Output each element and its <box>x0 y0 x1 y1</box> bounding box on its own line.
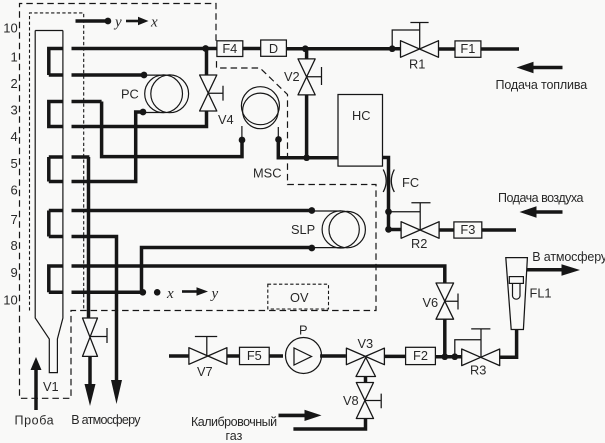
arrow fuel supply <box>533 66 563 70</box>
arrow air supply <box>535 210 563 214</box>
restrictor FC <box>383 170 394 193</box>
handle V7 <box>195 337 217 357</box>
valve V6 <box>436 283 454 319</box>
svg-text:V3: V3 <box>358 336 374 351</box>
svg-text:F4: F4 <box>222 41 237 56</box>
node V2 tee <box>302 45 309 52</box>
inner fine-dashed valve body box <box>30 13 84 311</box>
arrow sample in <box>34 369 38 410</box>
svg-text:F2: F2 <box>413 348 428 363</box>
svg-text:V7: V7 <box>197 364 213 379</box>
wire HC out to FC <box>383 158 402 230</box>
coil PC <box>143 75 189 113</box>
svg-text:R1: R1 <box>409 57 425 72</box>
node V4 tee on port1 line <box>202 45 209 52</box>
wire vent valve to arrow <box>88 356 92 385</box>
svg-text:3: 3 <box>10 103 17 118</box>
valve V8 <box>356 383 373 419</box>
svg-text:HC: HC <box>352 108 370 123</box>
wire pump row inlet <box>169 354 189 358</box>
node PC top <box>141 72 148 79</box>
wire F5 to P <box>269 354 283 358</box>
box F4 <box>217 41 243 57</box>
box D <box>261 40 287 56</box>
svg-text:FC: FC <box>402 175 419 190</box>
svg-text:2: 2 <box>10 76 17 91</box>
svg-text:Калибровочный: Калибровочный <box>191 415 277 429</box>
svg-text:OV: OV <box>290 290 309 305</box>
node R1 bypass tee <box>389 45 396 52</box>
svg-text:R2: R2 <box>411 236 427 251</box>
wire fuel inlet <box>481 47 519 51</box>
node dot y-marker top <box>105 18 112 25</box>
valve V3 <box>346 348 384 365</box>
svg-text:7: 7 <box>10 212 17 227</box>
svg-text:5: 5 <box>10 156 17 171</box>
valve V4 <box>200 75 217 111</box>
valve R3 <box>462 349 500 366</box>
wire V6 drop to pump row <box>443 319 447 357</box>
arrow to atmosphere 2 <box>111 380 122 404</box>
wire P to V3 <box>320 354 346 358</box>
svg-text:F5: F5 <box>247 348 262 363</box>
wire MSC right leg to HC <box>278 140 338 158</box>
valve V2 <box>298 59 315 95</box>
wire port10 line <box>49 291 143 295</box>
svg-text:V6: V6 <box>423 295 439 310</box>
handle V8 <box>365 394 381 409</box>
node PC bottom <box>140 109 147 116</box>
wire air inlet <box>482 228 516 232</box>
wire F4 to D <box>243 47 261 51</box>
svg-text:V2: V2 <box>284 69 300 84</box>
wire V8 to cal gas line <box>293 419 365 430</box>
svg-text:8: 8 <box>10 238 17 253</box>
node MSC left <box>239 137 246 144</box>
handle vent valve <box>90 328 107 343</box>
svg-text:6: 6 <box>10 183 17 198</box>
wire port10-top marker line <box>76 19 108 23</box>
svg-text:4: 4 <box>10 129 17 144</box>
rotameter FL1 <box>506 258 528 330</box>
node x-marker mid <box>154 289 161 296</box>
svg-text:Подача воздуха: Подача воздуха <box>498 191 583 205</box>
handle V4 <box>208 86 223 101</box>
wire port8 vent drop <box>49 237 117 381</box>
outer dashed boundary of valve oven zone <box>20 4 377 399</box>
node SLP top <box>308 207 315 214</box>
arrow y-to-x top <box>126 20 139 23</box>
node V2 bottom junction <box>303 154 310 161</box>
wire V3 to F2 <box>384 355 405 359</box>
svg-text:P: P <box>299 323 308 338</box>
svg-text:Проба: Проба <box>15 413 55 427</box>
arrow cal gas <box>279 414 306 418</box>
box HC <box>338 95 383 167</box>
regulator R1 bypass <box>392 23 428 49</box>
wire port1 loop U(1-2) and line to F4 <box>49 49 217 76</box>
svg-text:MSC: MSC <box>253 166 281 181</box>
svg-text:FL1: FL1 <box>530 286 552 301</box>
svg-text:10: 10 <box>3 293 17 308</box>
svg-text:F1: F1 <box>460 41 475 56</box>
node MSC right <box>275 136 282 143</box>
svg-text:10: 10 <box>3 21 17 36</box>
wire port6 to PC bottom <box>49 112 143 182</box>
box F1 <box>455 41 481 57</box>
node V6 bottom junction <box>441 353 448 360</box>
wire V3 to V8 <box>364 377 368 384</box>
arrow x-to-y mid <box>182 290 197 293</box>
valve R1 <box>401 41 439 58</box>
wire port5 to vent tee <box>49 157 90 318</box>
svg-text:SLP: SLP <box>291 222 315 237</box>
svg-text:9: 9 <box>10 265 17 280</box>
node port10 end <box>139 289 146 296</box>
box F3 <box>454 222 482 238</box>
arrow to atmosphere top <box>562 264 581 275</box>
valve vent (unlabeled) on port5 vent line <box>83 318 98 356</box>
box OV dashed <box>268 284 329 309</box>
wire R1 to F1 <box>439 47 456 51</box>
wire port2 line to PC <box>49 73 144 77</box>
wire F2 to R3 <box>435 355 461 359</box>
svg-text:PC: PC <box>121 87 139 102</box>
svg-text:1: 1 <box>10 50 17 65</box>
wire V7 to F5 <box>227 354 240 358</box>
wire R2 to F3 <box>439 228 454 232</box>
svg-text:В атмосферу: В атмосферу <box>532 250 605 264</box>
wire R3 up to FL1 <box>499 330 516 357</box>
svg-text:В атмосферу: В атмосферу <box>71 413 141 427</box>
wire V4 drop from port1 line <box>49 49 207 127</box>
wire FL1 to atmosphere <box>527 268 563 272</box>
box F5 <box>240 347 270 364</box>
handle V6 <box>445 294 458 310</box>
regulator R2 bypass <box>389 203 431 230</box>
coil MSC <box>241 87 279 140</box>
node R2 bypass tee <box>385 208 392 215</box>
column V1 body <box>35 31 63 373</box>
arrow to atmosphere 1 <box>85 384 96 406</box>
svg-text:Подача топлива: Подача топлива <box>496 78 588 92</box>
svg-text:x: x <box>166 286 174 302</box>
wire D to R1 <box>286 47 400 51</box>
svg-text:y: y <box>210 286 219 302</box>
svg-text:V4: V4 <box>218 112 234 127</box>
svg-text:x: x <box>150 15 158 31</box>
valve V3 branch triangle <box>356 358 376 377</box>
handle V2 <box>307 67 322 85</box>
valve V7 <box>189 348 227 365</box>
svg-text:R3: R3 <box>470 363 486 378</box>
svg-text:газ: газ <box>226 429 243 443</box>
node SLP bottom <box>308 245 315 252</box>
box F2 <box>406 347 436 364</box>
svg-text:y: y <box>113 15 122 31</box>
svg-text:D: D <box>269 41 278 56</box>
valve R2 <box>401 222 439 239</box>
pump P <box>286 338 322 374</box>
node R2 line corner <box>385 226 392 233</box>
coil SLP <box>312 211 366 248</box>
node R3 bypass tee <box>451 353 458 360</box>
wire port7 to SLP top <box>49 211 312 237</box>
wire port9 long line to V6 <box>49 266 445 292</box>
regulator R3 bypass <box>455 329 491 357</box>
wire V2 drop <box>305 49 309 158</box>
wire port10 riser to SLP bottom <box>142 248 312 293</box>
svg-text:V1: V1 <box>43 379 59 394</box>
wire port3 jog down to MSC feed <box>102 102 242 157</box>
svg-text:F3: F3 <box>460 222 475 237</box>
svg-text:V8: V8 <box>343 393 359 408</box>
